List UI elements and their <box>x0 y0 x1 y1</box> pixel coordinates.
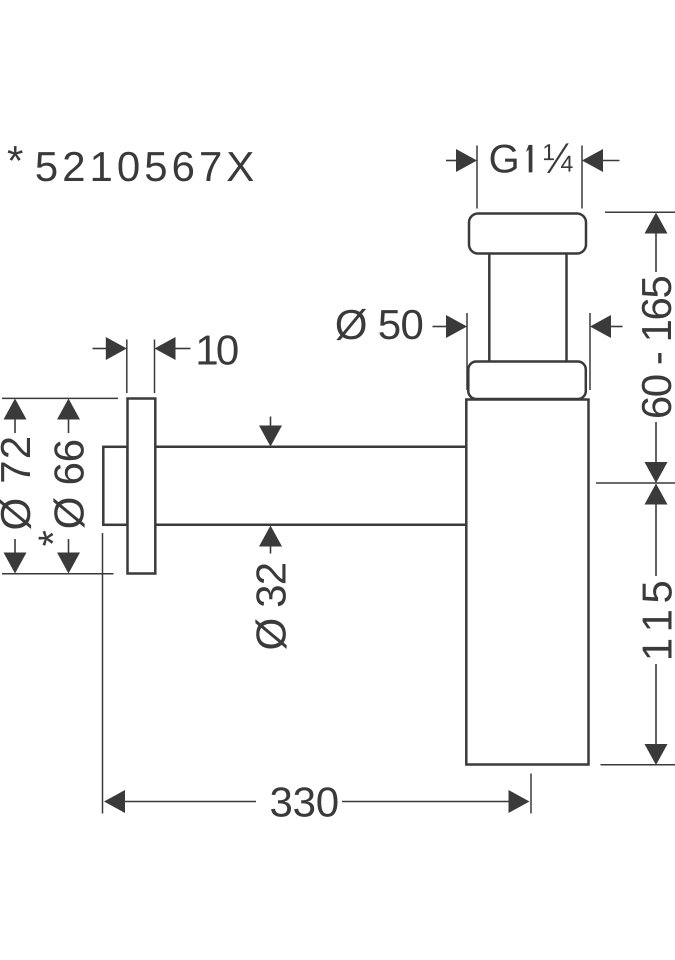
dim G1 1/4 left extension line <box>476 146 478 209</box>
dim dia50 left arrowhead <box>446 315 467 338</box>
escutcheon flange <box>468 362 586 400</box>
wall pipe stub <box>103 447 127 525</box>
dim dia72 bottom arrow tail <box>14 539 16 553</box>
horizontal pipe bottom edge <box>155 524 466 527</box>
dim 60-165 / 115 shared tick line <box>596 482 675 484</box>
dim 330 left arrowhead <box>104 790 125 813</box>
dim G1 1/4 right extension line <box>581 146 583 209</box>
dim 115 bottom tick line <box>601 764 675 766</box>
union nut <box>469 214 586 254</box>
dim dia72 top arrowhead <box>4 399 27 420</box>
dim dia72 text <box>0 438 31 529</box>
wall flange <box>128 399 156 574</box>
dim 115 text <box>643 582 672 658</box>
dim dia72 top arrow tail <box>14 420 16 434</box>
dim dia32 top arrowhead <box>259 426 282 447</box>
dim G1 1/4 right arrowhead <box>582 149 603 172</box>
label product code *5210567X asterisk <box>8 146 23 161</box>
dim G1 1/4 left arrow tail <box>446 160 458 162</box>
dim 60-165 top arrowhead <box>645 213 668 234</box>
dim 10 right arrow tail <box>176 348 191 350</box>
dim 115 upper line segment <box>655 505 657 577</box>
dim dia72/dia66 bottom extension line <box>2 573 114 575</box>
tailpiece pipe left edge <box>488 254 491 363</box>
dim G1 1/4 left arrowhead <box>456 149 477 172</box>
dim 60-165 top tick line <box>605 211 675 213</box>
dim dia50 right extension line <box>589 313 591 390</box>
dim 330 right line segment <box>342 801 509 803</box>
dim 115 bottom arrowhead <box>645 744 668 765</box>
dim 330 right extension line <box>530 774 532 814</box>
dim 10 right arrowhead <box>155 337 176 360</box>
dim dia66 top arrow tail <box>68 420 70 434</box>
dim dia72/dia66 top extension line <box>2 397 118 399</box>
dim dia32 top arrow tail <box>270 417 272 428</box>
dim dia50 text <box>336 309 422 340</box>
dim 115 top arrowhead <box>645 484 668 505</box>
dim 330 left extension line <box>102 533 104 814</box>
dim 10 left extension line <box>126 340 128 394</box>
dim G1 1/4 text <box>491 143 573 173</box>
dim dia66 bottom arrowhead <box>57 553 80 574</box>
dim 10 text <box>199 335 238 365</box>
dim 330 left line segment <box>125 801 256 803</box>
dim dia50 left arrow tail <box>433 326 448 328</box>
dim 60-165 lower line segment <box>655 422 657 462</box>
dim G1 1/4 right arrow tail <box>601 160 620 162</box>
dim dia32 text <box>255 564 286 649</box>
tailpiece pipe right edge <box>565 254 568 363</box>
dim dia66 bottom arrow tail <box>68 539 70 553</box>
footnote asterisk for dia66 <box>39 531 54 546</box>
dim 60-165 text <box>642 277 672 417</box>
dim dia50 right arrow tail <box>611 326 623 328</box>
dim dia32 bottom arrow tail <box>270 547 272 554</box>
dim 60-165 upper line segment <box>655 234 657 273</box>
dim 10 left arrow tail <box>93 348 108 350</box>
dim 330 text <box>271 787 337 817</box>
dim dia66 top arrowhead <box>57 399 80 420</box>
dim dia50 right arrowhead <box>590 315 611 338</box>
dim 330 right arrowhead <box>509 790 530 813</box>
dim 10 left arrowhead <box>106 337 127 360</box>
label product code 5210567X digits <box>37 152 254 182</box>
dim dia32 bottom arrowhead <box>259 526 282 547</box>
dim dia66 text <box>53 441 84 528</box>
dim 10 right extension line <box>154 340 156 394</box>
dim 60-165 bottom arrowhead <box>645 462 668 483</box>
dim dia72 bottom arrowhead <box>4 553 27 574</box>
dim dia50 left extension line <box>466 313 468 390</box>
trap body <box>466 400 588 765</box>
dim 115 lower line segment <box>655 664 657 744</box>
horizontal pipe top edge <box>155 446 466 449</box>
